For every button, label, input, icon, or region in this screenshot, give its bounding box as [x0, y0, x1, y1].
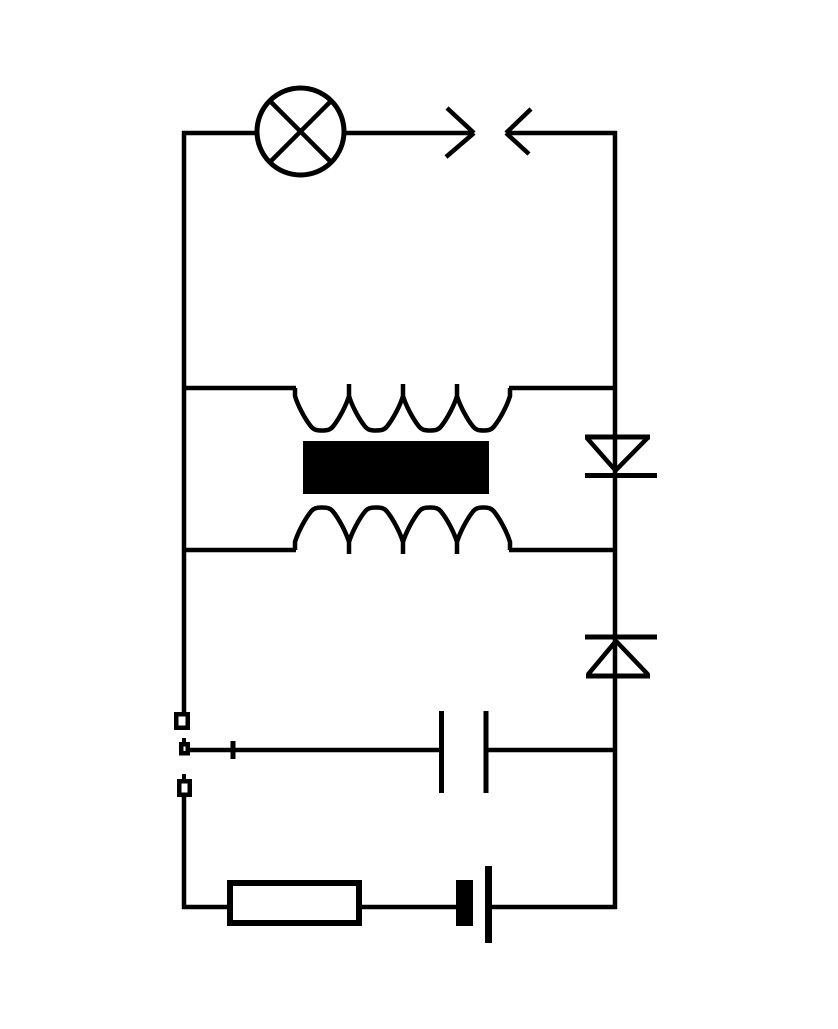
wire to secondary coil left — [184, 548, 296, 553]
wire switch to capacitor — [190, 748, 439, 753]
wire lamp to spark gap — [345, 131, 473, 136]
switch S1 pole middle — [181, 744, 188, 753]
switch stub bottom — [182, 774, 186, 781]
transformer core — [303, 441, 489, 494]
transformer primary winding — [295, 384, 510, 431]
diode D2 (cathode up) — [585, 637, 657, 676]
lamp L1 — [257, 88, 344, 175]
battery B1 positive plate — [485, 866, 492, 943]
wire bottom-left to resistor — [182, 905, 228, 910]
switch wire tick — [231, 741, 236, 759]
switch stub middle — [182, 738, 186, 744]
battery B1 negative plate — [456, 880, 473, 926]
wire battery to bottom-right corner — [491, 905, 617, 910]
wire to primary coil left — [184, 386, 296, 391]
resistor R1 — [230, 883, 359, 923]
wire capacitor to right vertical — [486, 748, 615, 753]
spark gap left electrode — [446, 108, 474, 157]
switch S1 terminal bottom — [179, 781, 190, 795]
spark gap right electrode — [506, 109, 531, 154]
wire left vertical upper — [182, 131, 187, 713]
wire right vertical — [613, 131, 618, 909]
capacitor C1 left plate — [439, 711, 444, 793]
wire left vertical lower — [182, 797, 187, 909]
wire resistor to battery — [362, 905, 456, 910]
switch S1 terminal top — [176, 714, 188, 728]
wire spark gap to top-right corner — [506, 131, 617, 136]
wire primary coil to right vertical — [509, 386, 615, 391]
transformer secondary winding — [295, 508, 510, 555]
diode D1 (cathode down) — [585, 437, 657, 476]
capacitor C1 right plate — [484, 711, 489, 793]
wire secondary coil to right vertical — [509, 548, 615, 553]
wire top-left horizontal — [182, 131, 256, 136]
